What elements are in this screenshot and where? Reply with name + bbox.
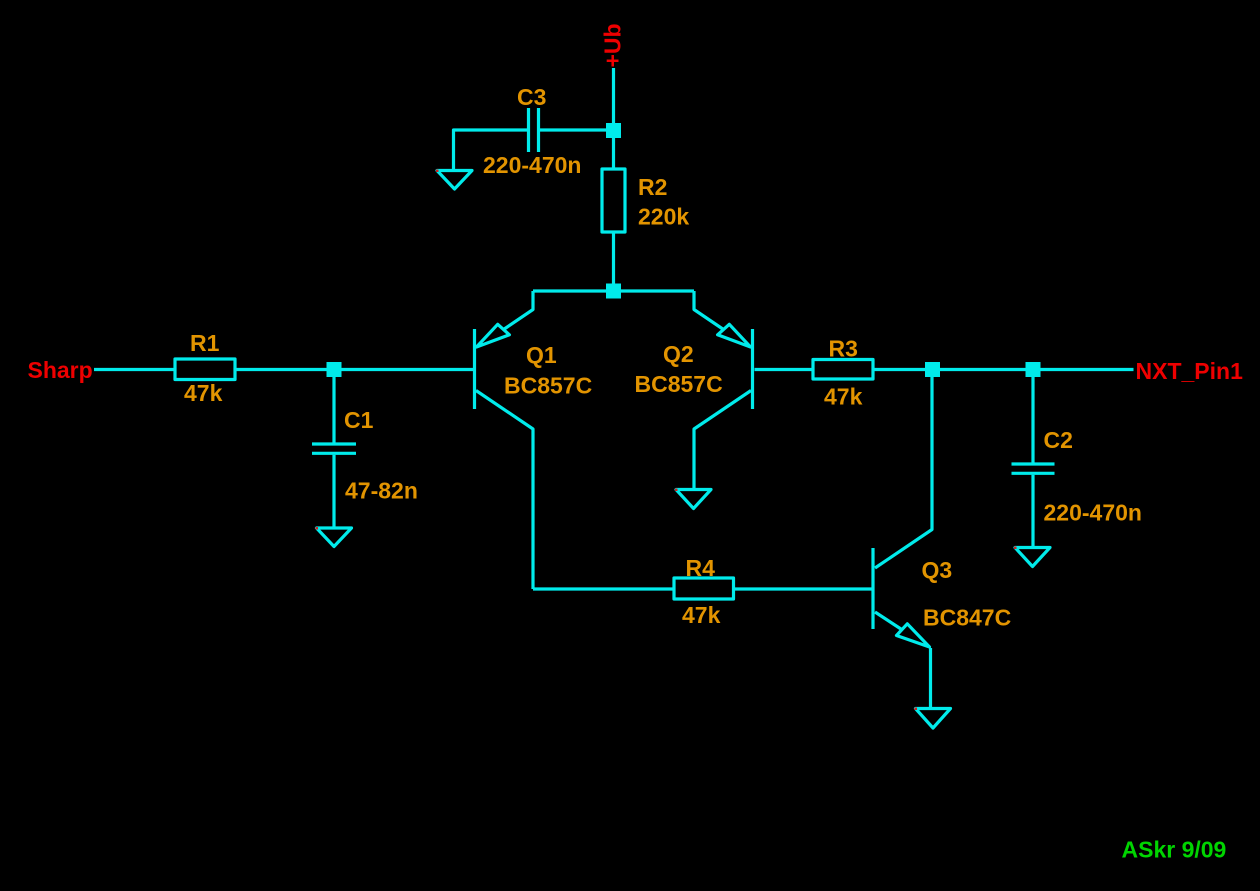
wire node D down to Q3 collector — [875, 377, 932, 568]
transistor Q2 emitter arrow — [718, 324, 751, 347]
ground G2 under Q2 — [676, 490, 711, 509]
ground G3 under C1 — [317, 528, 352, 547]
wire R2 top — [612, 131, 615, 169]
ground origin dot G4 — [1014, 547, 1017, 550]
transistor Q2 collector — [694, 391, 751, 490]
resistor R3 body — [813, 360, 873, 380]
svg-text:C1: C1 — [344, 407, 374, 433]
transistor Q3 emitter arrow — [897, 624, 930, 647]
transistor Q1 base bar — [473, 329, 476, 409]
wire C1 bottom — [332, 455, 335, 527]
ground origin dot G3 — [316, 527, 319, 530]
svg-text:Q2: Q2 — [663, 341, 694, 367]
svg-text:C2: C2 — [1044, 427, 1073, 453]
svg-text:BC857C: BC857C — [504, 373, 592, 399]
wire Sharp to R1 — [94, 368, 175, 371]
wire +Ub stem — [612, 68, 615, 130]
capacitor C2 plates — [1012, 462, 1055, 465]
svg-text:47k: 47k — [824, 384, 863, 410]
ground origin dot G1 — [436, 170, 439, 173]
svg-text:Q1: Q1 — [526, 342, 557, 368]
wire C1 top — [332, 371, 335, 443]
svg-text:C3: C3 — [517, 84, 546, 110]
svg-text:220k: 220k — [638, 204, 689, 230]
wire emitter rail — [533, 289, 694, 292]
transistor Q3 base bar — [871, 548, 874, 629]
svg-text:47-82n: 47-82n — [345, 478, 418, 504]
resistor R4 body — [674, 578, 734, 599]
svg-text:R3: R3 — [829, 336, 858, 362]
svg-text:R1: R1 — [190, 330, 220, 356]
transistor Q3 emitter — [875, 612, 902, 630]
wire Q2 base to R3 — [755, 368, 814, 371]
capacitor C3 plates — [527, 108, 530, 152]
ground origin dot G5 — [915, 708, 918, 711]
transistor Q1 emitter arrow — [477, 324, 510, 347]
ground G1 — [437, 171, 472, 190]
junction node C (R1/C1) — [327, 362, 342, 377]
junction node B (R2/emitters) — [606, 284, 621, 299]
svg-text:ASkr 9/09: ASkr 9/09 — [1122, 837, 1227, 863]
svg-text:220-470n: 220-470n — [483, 152, 581, 178]
svg-text:220-470n: 220-470n — [1044, 500, 1142, 526]
wire C2 top — [1031, 371, 1034, 463]
capacitor C1 plates — [312, 442, 356, 445]
wire R2 bottom — [612, 232, 615, 291]
wire C3 right segment — [540, 128, 614, 131]
svg-text:R4: R4 — [686, 555, 716, 581]
svg-text:Sharp: Sharp — [28, 357, 93, 383]
junction node D (R3/Q3) — [925, 362, 940, 377]
ground G4 under C2 — [1015, 548, 1050, 567]
svg-text:47k: 47k — [184, 380, 223, 406]
wire C3 left segment to ground — [454, 130, 528, 169]
svg-text:BC847C: BC847C — [923, 605, 1011, 631]
transistor Q1 collector — [476, 391, 533, 590]
resistor R1 body — [175, 359, 235, 380]
wire R1 to Q1 base — [235, 368, 473, 371]
wire Q1 collector to R4 — [533, 587, 674, 590]
resistor R2 body — [602, 169, 625, 232]
junction node A (+Ub/C3/R2) — [606, 123, 621, 138]
wire R3 to NXT_Pin1 — [873, 368, 1134, 371]
svg-text:47k: 47k — [682, 602, 721, 628]
junction node E (C2) — [1026, 362, 1041, 377]
svg-text:R2: R2 — [638, 174, 667, 200]
ground G5 under Q3 — [916, 709, 951, 729]
transistor Q2 base bar — [751, 329, 754, 409]
transistor Q1 emitter — [504, 291, 534, 330]
wire C2 bottom — [1031, 475, 1034, 547]
svg-text:NXT_Pin1: NXT_Pin1 — [1136, 358, 1244, 384]
svg-text:BC857C: BC857C — [635, 371, 723, 397]
ground origin dot G2 — [675, 489, 678, 492]
wire Q3 emitter to ground — [929, 648, 932, 708]
wire R4 to Q3 base — [734, 587, 872, 590]
svg-text:+Ub: +Ub — [600, 23, 626, 67]
transistor Q2 emitter — [694, 291, 724, 330]
svg-text:Q3: Q3 — [922, 557, 953, 583]
